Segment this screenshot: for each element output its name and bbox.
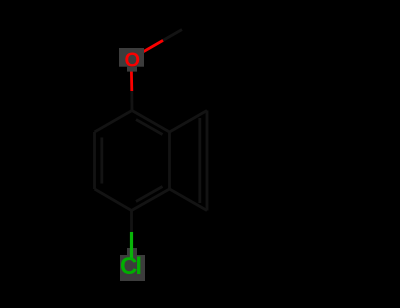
ring1 edge T-UR (double) <box>132 111 170 133</box>
svg-text:O: O <box>125 49 141 71</box>
ring1 fusion edge UR-LR <box>168 132 171 189</box>
svg-text:l: l <box>135 253 142 280</box>
ring1 T-UR inner double line <box>136 120 163 135</box>
ring1 left double bond inner line <box>100 138 103 184</box>
O-ring bond dark half <box>130 91 133 111</box>
ring2 inner double line <box>198 118 201 203</box>
methoxy CH3 bond: dark half (far from O) <box>163 30 182 41</box>
Cl label bond tab <box>127 248 137 255</box>
ring2 top diagonal UR-T2 <box>170 111 208 133</box>
O label background box <box>119 48 144 67</box>
methoxy CH3 bond: red half (near O) <box>144 40 164 51</box>
ring1 edge LR-B (double) <box>132 189 170 211</box>
ring2 bottom diagonal B2-LR <box>170 189 208 211</box>
ring2 collapsed vertical chain <box>206 111 209 211</box>
ring1 LR-B inner double line <box>136 187 163 202</box>
Cl bond dark half <box>130 211 133 233</box>
O label bond tab <box>127 67 137 72</box>
Cl label background box <box>120 255 145 281</box>
ring1 edge LL-B <box>95 189 132 211</box>
O-ring bond red half <box>130 71 133 91</box>
ring1 edge T-UL <box>95 111 133 133</box>
ring1 left edge (double bond outer) <box>93 132 96 189</box>
Cl bond green half <box>130 232 133 258</box>
